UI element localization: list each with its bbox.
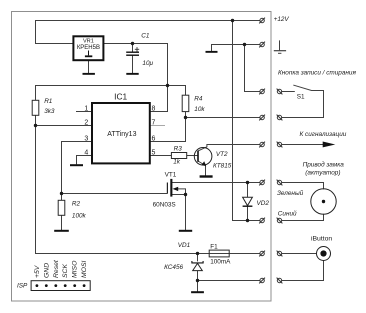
svg-text:10k: 10k xyxy=(194,106,205,113)
svg-text:IC1: IC1 xyxy=(114,91,127,101)
svg-text:КС456: КС456 xyxy=(164,264,183,271)
svg-text:+12V: +12V xyxy=(274,16,290,23)
svg-text:3k3: 3k3 xyxy=(44,108,55,115)
svg-text:F1: F1 xyxy=(210,244,218,251)
svg-text:4: 4 xyxy=(84,150,88,157)
svg-text:КТ815: КТ815 xyxy=(213,163,232,170)
svg-text:GND: GND xyxy=(43,263,50,278)
svg-text:3: 3 xyxy=(84,136,88,143)
svg-text:60N03S: 60N03S xyxy=(153,201,176,208)
svg-text:7: 7 xyxy=(151,120,155,127)
svg-text:VT2: VT2 xyxy=(216,151,228,158)
svg-text:1k: 1k xyxy=(173,159,181,166)
svg-text:1: 1 xyxy=(84,106,88,113)
svg-text:iButton: iButton xyxy=(311,236,332,243)
svg-text:R1: R1 xyxy=(44,98,53,105)
svg-text:MISO: MISO xyxy=(72,260,79,278)
svg-text:6: 6 xyxy=(151,136,155,143)
svg-text:VR1: VR1 xyxy=(83,39,94,45)
svg-text:(актуатор): (актуатор) xyxy=(305,169,340,176)
svg-text:ATTiny13: ATTiny13 xyxy=(107,131,136,138)
svg-text:VT1: VT1 xyxy=(165,171,177,178)
svg-text:MOSI: MOSI xyxy=(81,261,88,278)
svg-text:100k: 100k xyxy=(72,212,87,219)
svg-text:ISP: ISP xyxy=(17,283,28,290)
svg-text:Зеленый: Зеленый xyxy=(277,189,304,197)
svg-text:R2: R2 xyxy=(72,200,81,207)
svg-text:К сигнализации: К сигнализации xyxy=(300,131,347,138)
svg-text:КРЕН5В: КРЕН5В xyxy=(77,45,100,51)
svg-text:SCK: SCK xyxy=(62,264,69,278)
svg-text:Привод замка: Привод замка xyxy=(303,160,345,168)
svg-text:Reset: Reset xyxy=(53,259,60,278)
svg-text:Кнопка записи / стирания: Кнопка записи / стирания xyxy=(278,69,356,76)
svg-text:VD2: VD2 xyxy=(257,200,270,207)
svg-text:2: 2 xyxy=(84,120,88,127)
svg-text:8: 8 xyxy=(151,106,155,113)
svg-text:C1: C1 xyxy=(141,32,150,39)
svg-text:100mA: 100mA xyxy=(210,259,231,266)
svg-text:R3: R3 xyxy=(174,145,183,152)
svg-text:Синий: Синий xyxy=(278,210,297,218)
svg-text:5: 5 xyxy=(151,150,155,157)
svg-text:S1: S1 xyxy=(297,94,305,101)
svg-text:+5V: +5V xyxy=(34,264,41,278)
svg-text:10μ: 10μ xyxy=(142,60,153,67)
svg-text:VD1: VD1 xyxy=(178,242,191,249)
svg-text:R4: R4 xyxy=(194,96,203,103)
